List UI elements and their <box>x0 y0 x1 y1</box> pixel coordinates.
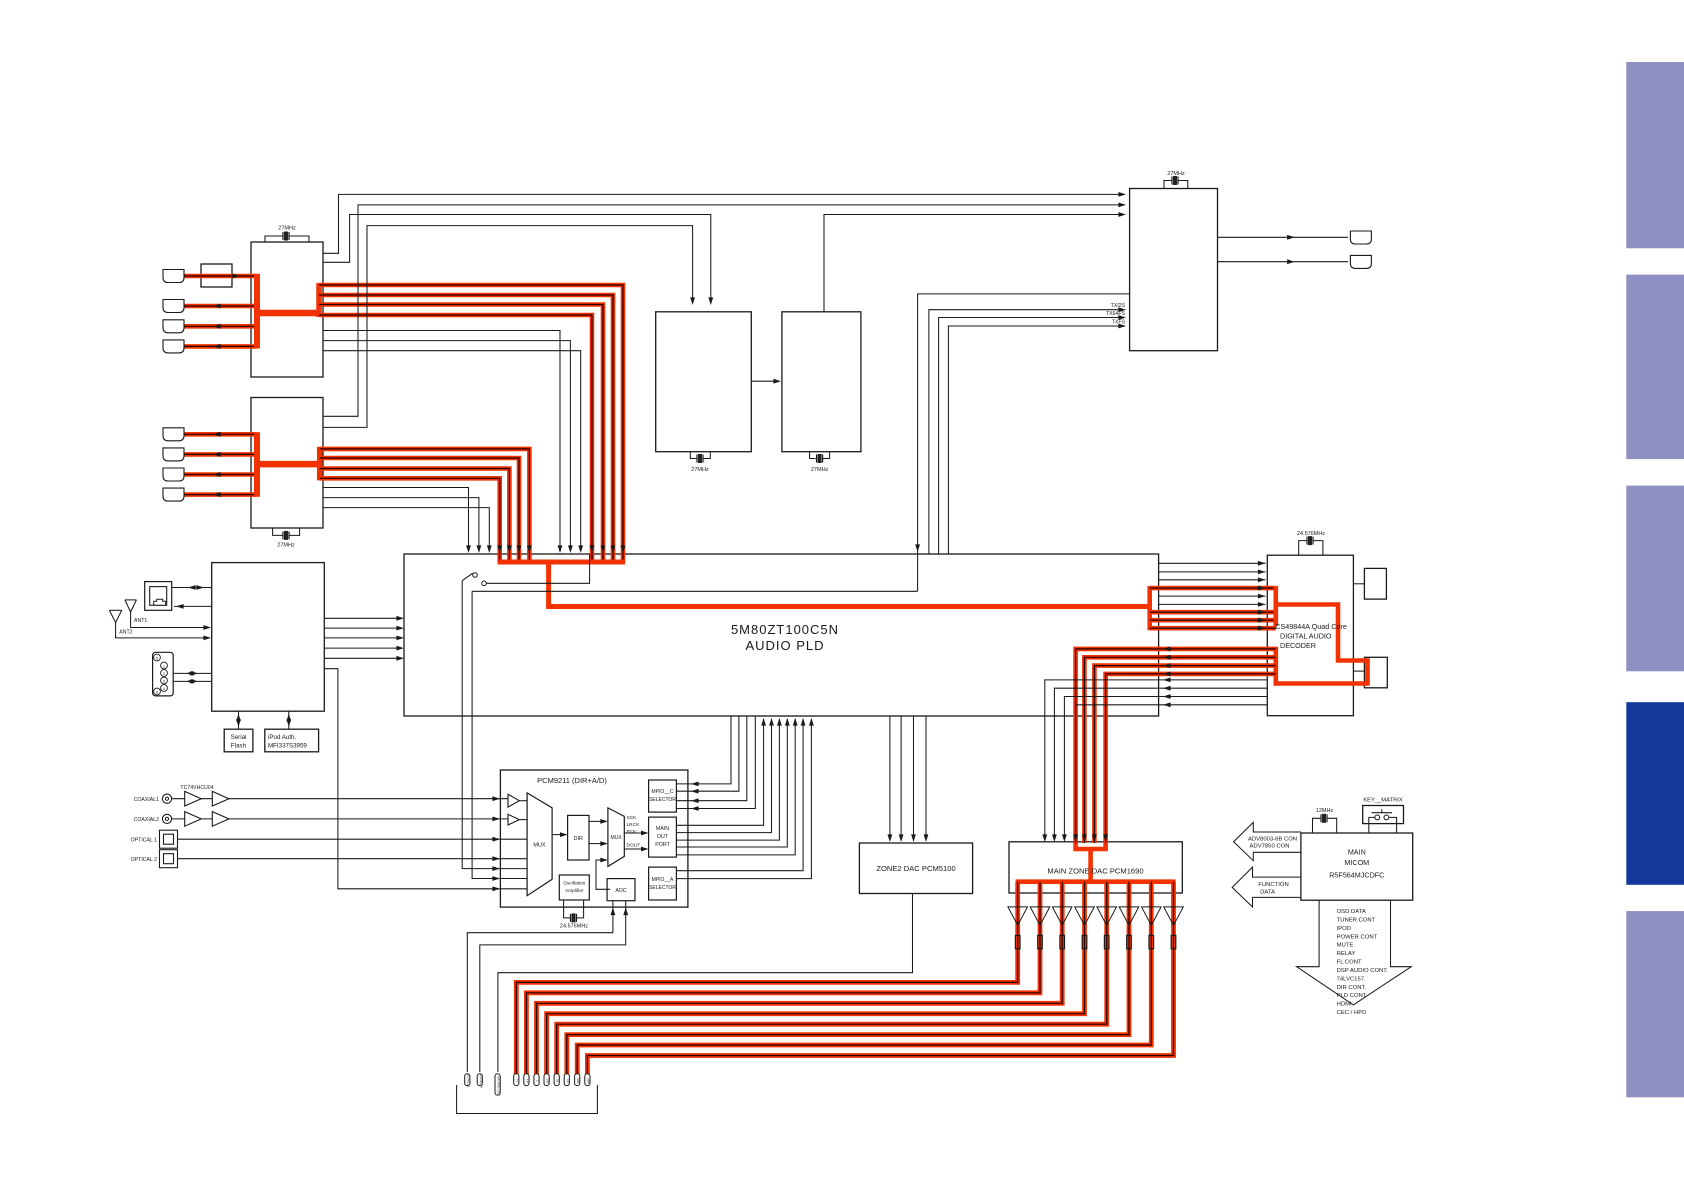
ADC box <box>607 879 635 901</box>
coaxial connector jacks <box>162 794 171 803</box>
block U8 CS49844A DSP decoder <box>1267 555 1353 716</box>
red bus: HDMI A input collector <box>184 274 257 279</box>
MUX2 trapezoid <box>608 808 624 867</box>
ethernet connector <box>145 582 172 611</box>
HDMI input connector J3 <box>163 320 184 333</box>
optical connector jacks <box>160 830 178 848</box>
wire PLD top to E plain (with interior run) <box>918 294 1130 591</box>
svg-text:FL CONT: FL CONT <box>1337 960 1362 966</box>
pre-out connector P4 <box>514 1074 519 1086</box>
iPod Auth link <box>288 711 290 729</box>
svg-text:5M80ZT100C5N: 5M80ZT100C5N <box>731 622 839 637</box>
crystal X4 27MHz block D <box>810 452 815 459</box>
side bar 1 <box>1626 62 1684 248</box>
block U4 video processor D <box>782 312 861 452</box>
HDMI input connector J6 <box>163 448 184 461</box>
wires F to PLD <box>324 617 401 619</box>
svg-text:TUNER CONT: TUNER CONT <box>1337 917 1376 923</box>
side bar 2 <box>1626 275 1684 460</box>
resistor R1 <box>1015 935 1020 948</box>
resistor R5 <box>1104 935 1109 948</box>
coaxial/optical input wires <box>172 798 509 800</box>
svg-text:ZONE2 L: ZONE2 L <box>466 1074 470 1088</box>
crystal X2 27MHz block B <box>273 528 282 535</box>
op-amp buffer A3 <box>1052 907 1072 925</box>
ZONE2 DAC output wire to pre-out connector <box>498 894 913 1073</box>
red speaker output wire 8 <box>587 882 1173 1075</box>
svg-text:MFI337S3959: MFI337S3959 <box>268 743 307 750</box>
op-amp buffer A1 <box>1008 907 1028 925</box>
PCM internal wires <box>519 800 527 802</box>
svg-text:PORT: PORT <box>655 842 670 848</box>
block U12 MAIN MICOM R5F564MJCDFC <box>1301 833 1413 900</box>
wire E to HDMI out connector 2 <box>1218 261 1349 263</box>
svg-text:MUTE: MUTE <box>1337 943 1354 949</box>
red wires DSP to PLD lower going to MAIN DAC <box>1076 649 1276 843</box>
svg-text:MPIO__C: MPIO__C <box>652 789 674 795</box>
svg-text:ZONE2 R: ZONE2 R <box>479 1074 483 1089</box>
MPIO_A SELECTOR box <box>649 867 677 900</box>
red staple at PLD right <box>1147 586 1152 630</box>
svg-text:DSP AUDIO CONT.: DSP AUDIO CONT. <box>1337 968 1389 974</box>
red bundle B out wires <box>320 449 530 562</box>
op-amp buffer A7 <box>1142 907 1162 925</box>
clock select switch inside PLD <box>473 573 478 578</box>
svg-text:TXFS: TXFS <box>1112 320 1126 326</box>
svg-text:24.576MHz: 24.576MHz <box>560 924 588 930</box>
red speaker output wire 4 <box>547 882 1085 1075</box>
antenna ANT2 <box>109 609 121 611</box>
svg-text:COAXIAL2: COAXIAL2 <box>134 817 159 823</box>
DSP side box 1 <box>1364 568 1386 599</box>
red routing inside DSP <box>1274 586 1279 626</box>
svg-text:27MHz: 27MHz <box>811 467 829 473</box>
resistor R3 <box>1060 935 1065 948</box>
buffer triangle coax2 inside PCM <box>508 814 519 825</box>
red speaker output wire 7 <box>577 882 1151 1075</box>
svg-text:MAIN: MAIN <box>1348 848 1366 857</box>
block U3 video processor C <box>656 312 752 452</box>
svg-text:OPTICAL 1: OPTICAL 1 <box>131 838 157 844</box>
arrows on HDMI stubs <box>232 274 240 279</box>
top route block A out1 to HDMI TX E <box>323 194 1123 253</box>
MPIO_A wires to PLD bottom <box>676 719 803 871</box>
resistor R8 <box>1171 935 1176 948</box>
svg-text:iPod Auth.: iPod Auth. <box>268 734 296 741</box>
HDMI input connector J8 <box>163 488 184 501</box>
svg-text:1: 1 <box>163 664 165 668</box>
red speaker output wire 5 <box>557 882 1107 1075</box>
svg-text:DOUT: DOUT <box>627 843 641 849</box>
pre-out connector P10 <box>575 1074 580 1086</box>
svg-text:TC74VHCU04: TC74VHCU04 <box>180 785 213 791</box>
MPIO_C wires to PLD bottom <box>676 716 731 784</box>
red bundle A out wires <box>319 285 623 562</box>
block U2 HDMI receiver/switch B <box>251 398 323 529</box>
wire TX64FS PLD to E <box>939 318 1123 555</box>
wire E to HDMI out connector 1 <box>1218 236 1349 238</box>
crystal X3 27MHz block C <box>690 452 695 459</box>
svg-text:SW PRE OUT: SW PRE OUT <box>497 1076 501 1096</box>
red bus feed B <box>255 461 322 468</box>
red bus vertical inside block A <box>254 274 260 349</box>
svg-text:ANT1: ANT1 <box>134 618 147 624</box>
wire block C to block D <box>751 380 778 382</box>
red bus: HDMI B input collector <box>184 432 257 437</box>
bottom bracket <box>457 1085 598 1114</box>
resistor R7 <box>1149 935 1154 948</box>
KEY_MATRIX box <box>1363 806 1404 824</box>
ZONE2 DAC input wires from PLD <box>889 716 891 840</box>
op-amp buffer A5 <box>1097 907 1117 925</box>
svg-text:DIR CONT.: DIR CONT. <box>1337 985 1367 991</box>
op-amp buffer A4 <box>1075 907 1095 925</box>
svg-text:MUX: MUX <box>610 835 622 841</box>
svg-text:KEY__MATRIX: KEY__MATRIX <box>1363 798 1403 804</box>
pre-out connector P11 <box>585 1074 590 1086</box>
big arrow FUNCTION DATA <box>1232 867 1301 907</box>
op-amp buffer A8 <box>1164 907 1184 925</box>
ethernet wires <box>172 587 212 589</box>
svg-text:MUX: MUX <box>533 843 546 849</box>
svg-text:MICOM: MICOM <box>1344 858 1369 867</box>
iPod Auth MFI337S3959 box <box>265 729 319 752</box>
top route block B out2 to block C <box>323 226 693 428</box>
svg-text:Serial: Serial <box>231 734 247 741</box>
HDMI input connector J7 <box>163 468 184 481</box>
crystal X1 27MHz block A <box>265 236 282 242</box>
svg-text:PLD CONT: PLD CONT <box>1337 993 1367 999</box>
wire TXFS PLD to E <box>948 326 1123 554</box>
DIN connector <box>153 652 174 696</box>
svg-text:SCK: SCK <box>627 815 638 821</box>
svg-text:27MHz: 27MHz <box>278 226 296 232</box>
pre-out connector P6 <box>534 1074 539 1086</box>
crystal X5 27MHz block E <box>1164 181 1171 189</box>
ADC bottom wires to pre-out connectors <box>467 901 613 1072</box>
black wires DSP to PLD lower to MAIN DAC <box>1045 680 1268 840</box>
long horizontal inside PLD <box>472 590 917 592</box>
side bar 3 <box>1626 486 1684 672</box>
svg-text:MPIO__A: MPIO__A <box>652 877 674 883</box>
svg-text:LRCK: LRCK <box>627 822 641 828</box>
svg-text:OUT: OUT <box>657 834 669 840</box>
pre-out connector P2 <box>477 1074 482 1086</box>
Serial Flash box <box>224 729 253 752</box>
pre-out connector P3 <box>495 1074 500 1095</box>
MAIN OUT PORT box <box>649 817 677 857</box>
block U1 HDMI receiver/switch A <box>251 242 323 377</box>
svg-text:POWER CONT: POWER CONT <box>1337 934 1378 940</box>
red output bus inside MAIN DAC <box>1016 879 1176 884</box>
wire TXI2S PLD to E <box>929 310 1123 554</box>
svg-text:2: 2 <box>163 672 165 676</box>
big down arrow from MICOM <box>1297 900 1412 1005</box>
antenna ANT1 <box>125 599 136 601</box>
arrows on red bundle verticals entering PLD <box>497 545 502 553</box>
block U5 HDMI transmitter E <box>1130 189 1218 351</box>
red trunk drop and main run to DSP <box>549 562 1150 607</box>
svg-text:SW: SW <box>546 1078 550 1083</box>
resistor R4 <box>1082 935 1087 948</box>
MAIN OUT PORT wires to PLD bottom <box>676 719 763 825</box>
svg-text:TX64FS: TX64FS <box>1106 311 1126 317</box>
Serial Flash link <box>238 711 240 729</box>
svg-text:SBR: SBR <box>586 1078 590 1085</box>
top route block A out2 to block C <box>323 215 711 303</box>
side bar 4 <box>1626 702 1684 885</box>
HDMI input connector J4 <box>163 340 184 353</box>
red speaker output wire 1 <box>516 882 1017 1075</box>
svg-text:OSD DATA: OSD DATA <box>1337 909 1366 915</box>
HDMI input connector J5 <box>163 428 184 441</box>
side bar 5 <box>1626 911 1684 1097</box>
resistor R2 <box>1038 935 1043 948</box>
svg-text:OPTICAL 2: OPTICAL 2 <box>131 857 157 863</box>
block U6 network/iPod module F <box>212 563 325 712</box>
svg-text:DECODER: DECODER <box>1280 641 1316 650</box>
Oscillation Amplifier box <box>559 875 589 900</box>
svg-text:ZONE2 DAC PCM5100: ZONE2 DAC PCM5100 <box>876 864 955 873</box>
svg-text:24.576MHz: 24.576MHz <box>1297 531 1325 537</box>
svg-text:4: 4 <box>163 687 165 691</box>
svg-text:HDMI: HDMI <box>1337 1002 1352 1008</box>
svg-text:6: 6 <box>156 690 158 694</box>
svg-text:SELECTOR: SELECTOR <box>649 885 676 891</box>
svg-text:R5F564MJCDFC: R5F564MJCDFC <box>1329 871 1384 880</box>
pre-out connector P9 <box>564 1074 569 1086</box>
svg-text:27MHz: 27MHz <box>691 467 709 473</box>
svg-text:ADV8003-6B CON: ADV8003-6B CON <box>1248 837 1297 843</box>
svg-text:SL: SL <box>556 1079 560 1083</box>
svg-text:IPOD: IPOD <box>1337 926 1351 932</box>
svg-text:CS49844A Quad Core: CS49844A Quad Core <box>1275 622 1347 631</box>
buffer triangle coax1 inside PCM <box>508 794 519 807</box>
svg-text:Amplifier: Amplifier <box>565 888 584 894</box>
red comb inside MAIN DAC top <box>1076 843 1106 849</box>
DIN wires <box>173 672 212 674</box>
svg-text:SELECTOR: SELECTOR <box>649 797 676 803</box>
svg-text:DATA: DATA <box>1260 889 1275 895</box>
pre-out connector P8 <box>554 1074 559 1086</box>
resistor R6 <box>1127 935 1132 948</box>
red merge bus inside PLD <box>498 560 625 565</box>
svg-text:FR: FR <box>525 1079 529 1084</box>
HDMI input connector J1 <box>163 270 184 283</box>
wire DSP to side box 1 <box>1353 583 1364 585</box>
route block D top to HDMI TX E <box>824 215 1123 312</box>
crystal X6 24.576MHz DSP <box>1299 541 1306 556</box>
HDMI repeater box on input 1 <box>201 264 232 287</box>
svg-text:ADC: ADC <box>615 888 626 894</box>
block U11 MAIN ZONE DAC PCM1690 <box>1009 842 1182 893</box>
svg-text:PCM9211 (DIR+A/D): PCM9211 (DIR+A/D) <box>537 776 607 785</box>
left arrows on lower red group at PLD edge <box>1163 647 1171 652</box>
oscillation amplifier crystal 24.576MHz <box>564 900 569 918</box>
wire F to PCM9211 MUX input <box>324 669 527 889</box>
HDMI output connector J9 <box>1350 231 1371 244</box>
svg-text:FL: FL <box>515 1079 519 1083</box>
arrows into MAIN DAC red inputs <box>1073 834 1078 842</box>
svg-text:5: 5 <box>156 656 158 660</box>
svg-text:27MHz: 27MHz <box>1167 171 1185 177</box>
black outs of block B to PLD top <box>323 488 469 552</box>
wire DSP to side box 2 <box>1353 670 1364 672</box>
pre-out connector P7 <box>544 1074 549 1086</box>
MPIO_C SELECTOR box <box>649 780 677 812</box>
wires from PLD interior down to PCM MUX <box>462 581 527 869</box>
red speaker output wire 2 <box>526 882 1040 1075</box>
svg-text:3: 3 <box>163 679 165 683</box>
svg-text:AUDIO PLD: AUDIO PLD <box>745 638 824 653</box>
black outs of block A to PLD top <box>323 331 560 552</box>
HDMI output connector J10 <box>1350 255 1371 268</box>
svg-text:Oscillation: Oscillation <box>563 881 585 887</box>
svg-text:BCK: BCK <box>627 829 638 835</box>
svg-text:SR: SR <box>566 1079 570 1084</box>
svg-text:Flash: Flash <box>231 743 247 750</box>
svg-text:27MHz: 27MHz <box>277 543 295 549</box>
svg-text:CEC / HPD: CEC / HPD <box>1337 1010 1367 1016</box>
svg-text:ADV7850 CON: ADV7850 CON <box>1250 844 1290 850</box>
svg-text:MAIN: MAIN <box>656 826 669 832</box>
nine wires PLD to DSP upper group <box>1159 562 1266 564</box>
block U7 5M80ZT100C5N AUDIO PLD <box>404 554 1159 716</box>
big arrow ADV8003 <box>1234 822 1301 860</box>
op-amp buffer A6 <box>1119 907 1139 925</box>
svg-text:RELAY: RELAY <box>1337 951 1356 957</box>
DSP side box 2 <box>1364 657 1387 688</box>
svg-text:MAIN ZONE DAC PCM1690: MAIN ZONE DAC PCM1690 <box>1047 867 1143 876</box>
svg-text:COAXIAL1: COAXIAL1 <box>134 797 159 803</box>
op-amp buffer A2 <box>1030 907 1050 925</box>
svg-text:ANT2: ANT2 <box>119 630 132 636</box>
svg-text:74LVC157.: 74LVC157. <box>1337 976 1366 982</box>
MUX1 trapezoid <box>527 793 552 896</box>
block U10 ZONE2 DAC PCM5100 <box>859 843 972 894</box>
svg-text:FUNCTION: FUNCTION <box>1258 882 1288 888</box>
red bus feed A <box>255 310 321 317</box>
pre-out connector P1 <box>465 1074 470 1086</box>
red speaker output wire 3 <box>537 882 1063 1075</box>
svg-text:12MHz: 12MHz <box>1316 808 1334 814</box>
svg-text:SBL: SBL <box>576 1078 580 1084</box>
DIR box <box>568 815 589 860</box>
red wires PLD to DSP upper <box>1150 586 1276 591</box>
crystal X7 12MHz MICOM <box>1313 818 1320 833</box>
pre-out connector P5 <box>524 1074 529 1086</box>
input buffer triangles TC74VHCU04 <box>185 791 202 806</box>
HDMI input connector J2 <box>163 300 184 313</box>
svg-text:DIR: DIR <box>574 836 584 842</box>
svg-text:DIGITAL AUDIO: DIGITAL AUDIO <box>1280 632 1332 641</box>
block U9 PCM9211 DIR+A/D <box>500 770 688 907</box>
red speaker output wire 6 <box>567 882 1129 1075</box>
top route block B out1 to HDMI TX E <box>323 205 1123 416</box>
svg-text:TXI2S: TXI2S <box>1111 303 1126 309</box>
